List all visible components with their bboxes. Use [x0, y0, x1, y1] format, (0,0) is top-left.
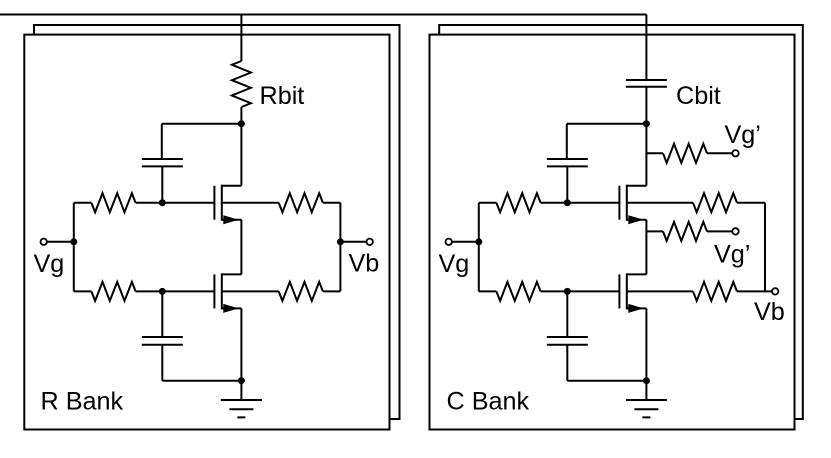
capacitor C2 (lower R bank) [142, 337, 183, 345]
C Bank front panel [430, 35, 795, 430]
resistor lower body (R bank) [279, 282, 323, 301]
R Bank front panel [24, 35, 389, 430]
wire Cbit top lead [645, 15, 647, 81]
wire lower gate row right (C) [541, 290, 620, 292]
wire Vg riser [73, 203, 75, 292]
wire lower body to Vb riser [323, 290, 341, 292]
wire Rbit to drain node [240, 107, 242, 124]
transistor M4 (C bank lower NMOS) source arrow [628, 304, 643, 313]
svg-text:Vb: Vb [754, 298, 785, 326]
wire gate node to cap2 [161, 291, 163, 337]
wire cap branch down (C) [566, 124, 568, 159]
wire upper body to Vb riser [323, 202, 341, 204]
wire mid Vg' stub [707, 230, 732, 232]
wire cap branch down [161, 124, 163, 159]
transistor M2 (R bank lower NMOS) source arrow [223, 304, 238, 313]
terminal Vg' mid [732, 228, 738, 234]
node ground (R) [238, 377, 245, 384]
terminal Vg (C) [446, 239, 452, 245]
wire lower gate row right [136, 290, 215, 292]
wire Vg riser (C) [478, 203, 480, 292]
node lower gate (R) [159, 288, 166, 295]
transistor M3 (C bank upper NMOS) source arrow [628, 215, 643, 224]
transistor M1 (R bank upper NMOS) drain lead [222, 185, 242, 187]
transistor M4 (C bank lower NMOS) source lead [627, 307, 647, 309]
wire upper gate row right (C) [541, 202, 620, 204]
svg-text:Vg: Vg [439, 250, 470, 278]
ground (R bank) [221, 381, 262, 418]
transistor M1 (R bank upper NMOS) gate bar [213, 186, 215, 220]
wire upper gate row left (C) [479, 202, 497, 204]
resistor upper body (C bank) [693, 193, 737, 212]
terminal Vb (R) [367, 239, 373, 245]
transistor M2 (R bank lower NMOS) drain lead [222, 273, 242, 275]
resistor lower gate (R bank) [91, 282, 135, 301]
wire upper body row (C) [627, 202, 693, 204]
wire gate node to cap4 [566, 291, 568, 337]
wire upper gate row left [74, 202, 92, 204]
transistor M3 (C bank upper NMOS) source lead [627, 219, 647, 221]
resistor lower gate (C bank) [496, 282, 540, 301]
transistor M4 (C bank lower NMOS) channel bar [626, 273, 628, 309]
resistor lower body (C bank) [693, 282, 737, 301]
wire Vg stub [47, 241, 74, 243]
wire Cbit to drain node [645, 87, 647, 124]
svg-text:Vg’: Vg’ [714, 241, 750, 269]
transistor M2 (R bank lower NMOS) source lead [222, 307, 242, 309]
wire upper body to Vb riser (C) [737, 202, 765, 204]
node Vb (R) [337, 238, 344, 245]
wire M1 drain riser [240, 124, 242, 186]
transistor M2 (R bank lower NMOS) channel bar [221, 273, 223, 309]
transistor M3 (C bank upper NMOS) channel bar [626, 185, 628, 221]
transistor M3 (C bank upper NMOS) gate bar [618, 186, 620, 220]
terminal Vb (C) [772, 288, 778, 294]
node ground (C) [643, 377, 650, 384]
wire lower gate row left [74, 290, 92, 292]
wire Rbit top lead [240, 15, 242, 62]
wire top Vg' tap [646, 152, 663, 154]
node drain top (R) [238, 120, 245, 127]
wire mid Vg' tap [646, 230, 663, 232]
transistor M4 (C bank lower NMOS) drain lead [627, 273, 647, 275]
resistor top Vg' [663, 144, 707, 163]
capacitor Cbit [626, 80, 667, 87]
capacitor C4 (lower C bank) [547, 337, 588, 345]
transistor M1 (R bank upper NMOS) source lead [222, 219, 242, 221]
ground (C bank) [626, 381, 667, 418]
wire Vb stub (R) [340, 241, 366, 243]
svg-text:R Bank: R Bank [41, 388, 124, 416]
wire M4 source down [645, 308, 647, 380]
wire upper body row (R) [222, 202, 279, 204]
resistor Rbit [232, 61, 251, 107]
R Bank back panel [34, 25, 400, 419]
wire M2 source down [240, 308, 242, 380]
resistor upper gate (R bank) [91, 193, 135, 212]
svg-text:Vg: Vg [34, 250, 65, 278]
terminal Vg (R) [41, 239, 47, 245]
resistor mid Vg' [663, 222, 707, 241]
transistor M2 (R bank lower NMOS) gate bar [213, 274, 215, 308]
C Bank back panel [439, 25, 803, 419]
node upper gate (R) [159, 199, 166, 206]
wire lower gate row left (C) [479, 290, 497, 292]
transistor M1 (R bank upper NMOS) source arrow [223, 215, 238, 224]
svg-text:Vg’: Vg’ [725, 121, 761, 149]
resistor upper body (R bank) [279, 193, 323, 212]
wire lower body row (R) [222, 290, 279, 292]
wire M3 drain riser [645, 124, 647, 186]
node Vg (R) [70, 238, 77, 245]
node lower gate (C) [564, 288, 571, 295]
terminal Vg' top [732, 150, 738, 156]
wire cap2 to bottom rail [162, 345, 241, 381]
wire Vb riser (R) [339, 203, 341, 292]
wire drain node to cap branch (C) [567, 123, 647, 125]
node drain top (C) [643, 120, 650, 127]
svg-text:Cbit: Cbit [676, 82, 721, 110]
wire lower body to Vb terminal (C) [737, 290, 772, 292]
wire Vb riser (C) [764, 203, 766, 292]
wire M1 source to M2 drain [240, 220, 242, 275]
wire M3 source to M4 drain [645, 220, 647, 275]
capacitor C1 (upper R bank) [142, 159, 183, 166]
capacitor C3 (upper C bank) [547, 159, 588, 166]
wire Vg stub (C) [452, 241, 479, 243]
wire top bit line [0, 14, 646, 16]
svg-text:C Bank: C Bank [447, 388, 530, 416]
wire drain node to cap branch [162, 123, 242, 125]
node upper gate (C) [564, 199, 571, 206]
wire cap to gate node [161, 166, 163, 202]
node Vg (C) [475, 238, 482, 245]
svg-text:Vb: Vb [349, 250, 380, 278]
transistor M4 (C bank lower NMOS) gate bar [618, 274, 620, 308]
resistor upper gate (C bank) [496, 193, 540, 212]
wire upper gate row right [136, 202, 215, 204]
wire cap to gate node (C) [566, 166, 568, 202]
wire lower body row (C) [627, 290, 693, 292]
transistor M3 (C bank upper NMOS) drain lead [627, 185, 647, 187]
wire top Vg' stub [707, 152, 732, 154]
wire cap4 to bottom rail [567, 345, 646, 381]
svg-text:Rbit: Rbit [260, 82, 305, 110]
transistor M1 (R bank upper NMOS) channel bar [221, 185, 223, 221]
